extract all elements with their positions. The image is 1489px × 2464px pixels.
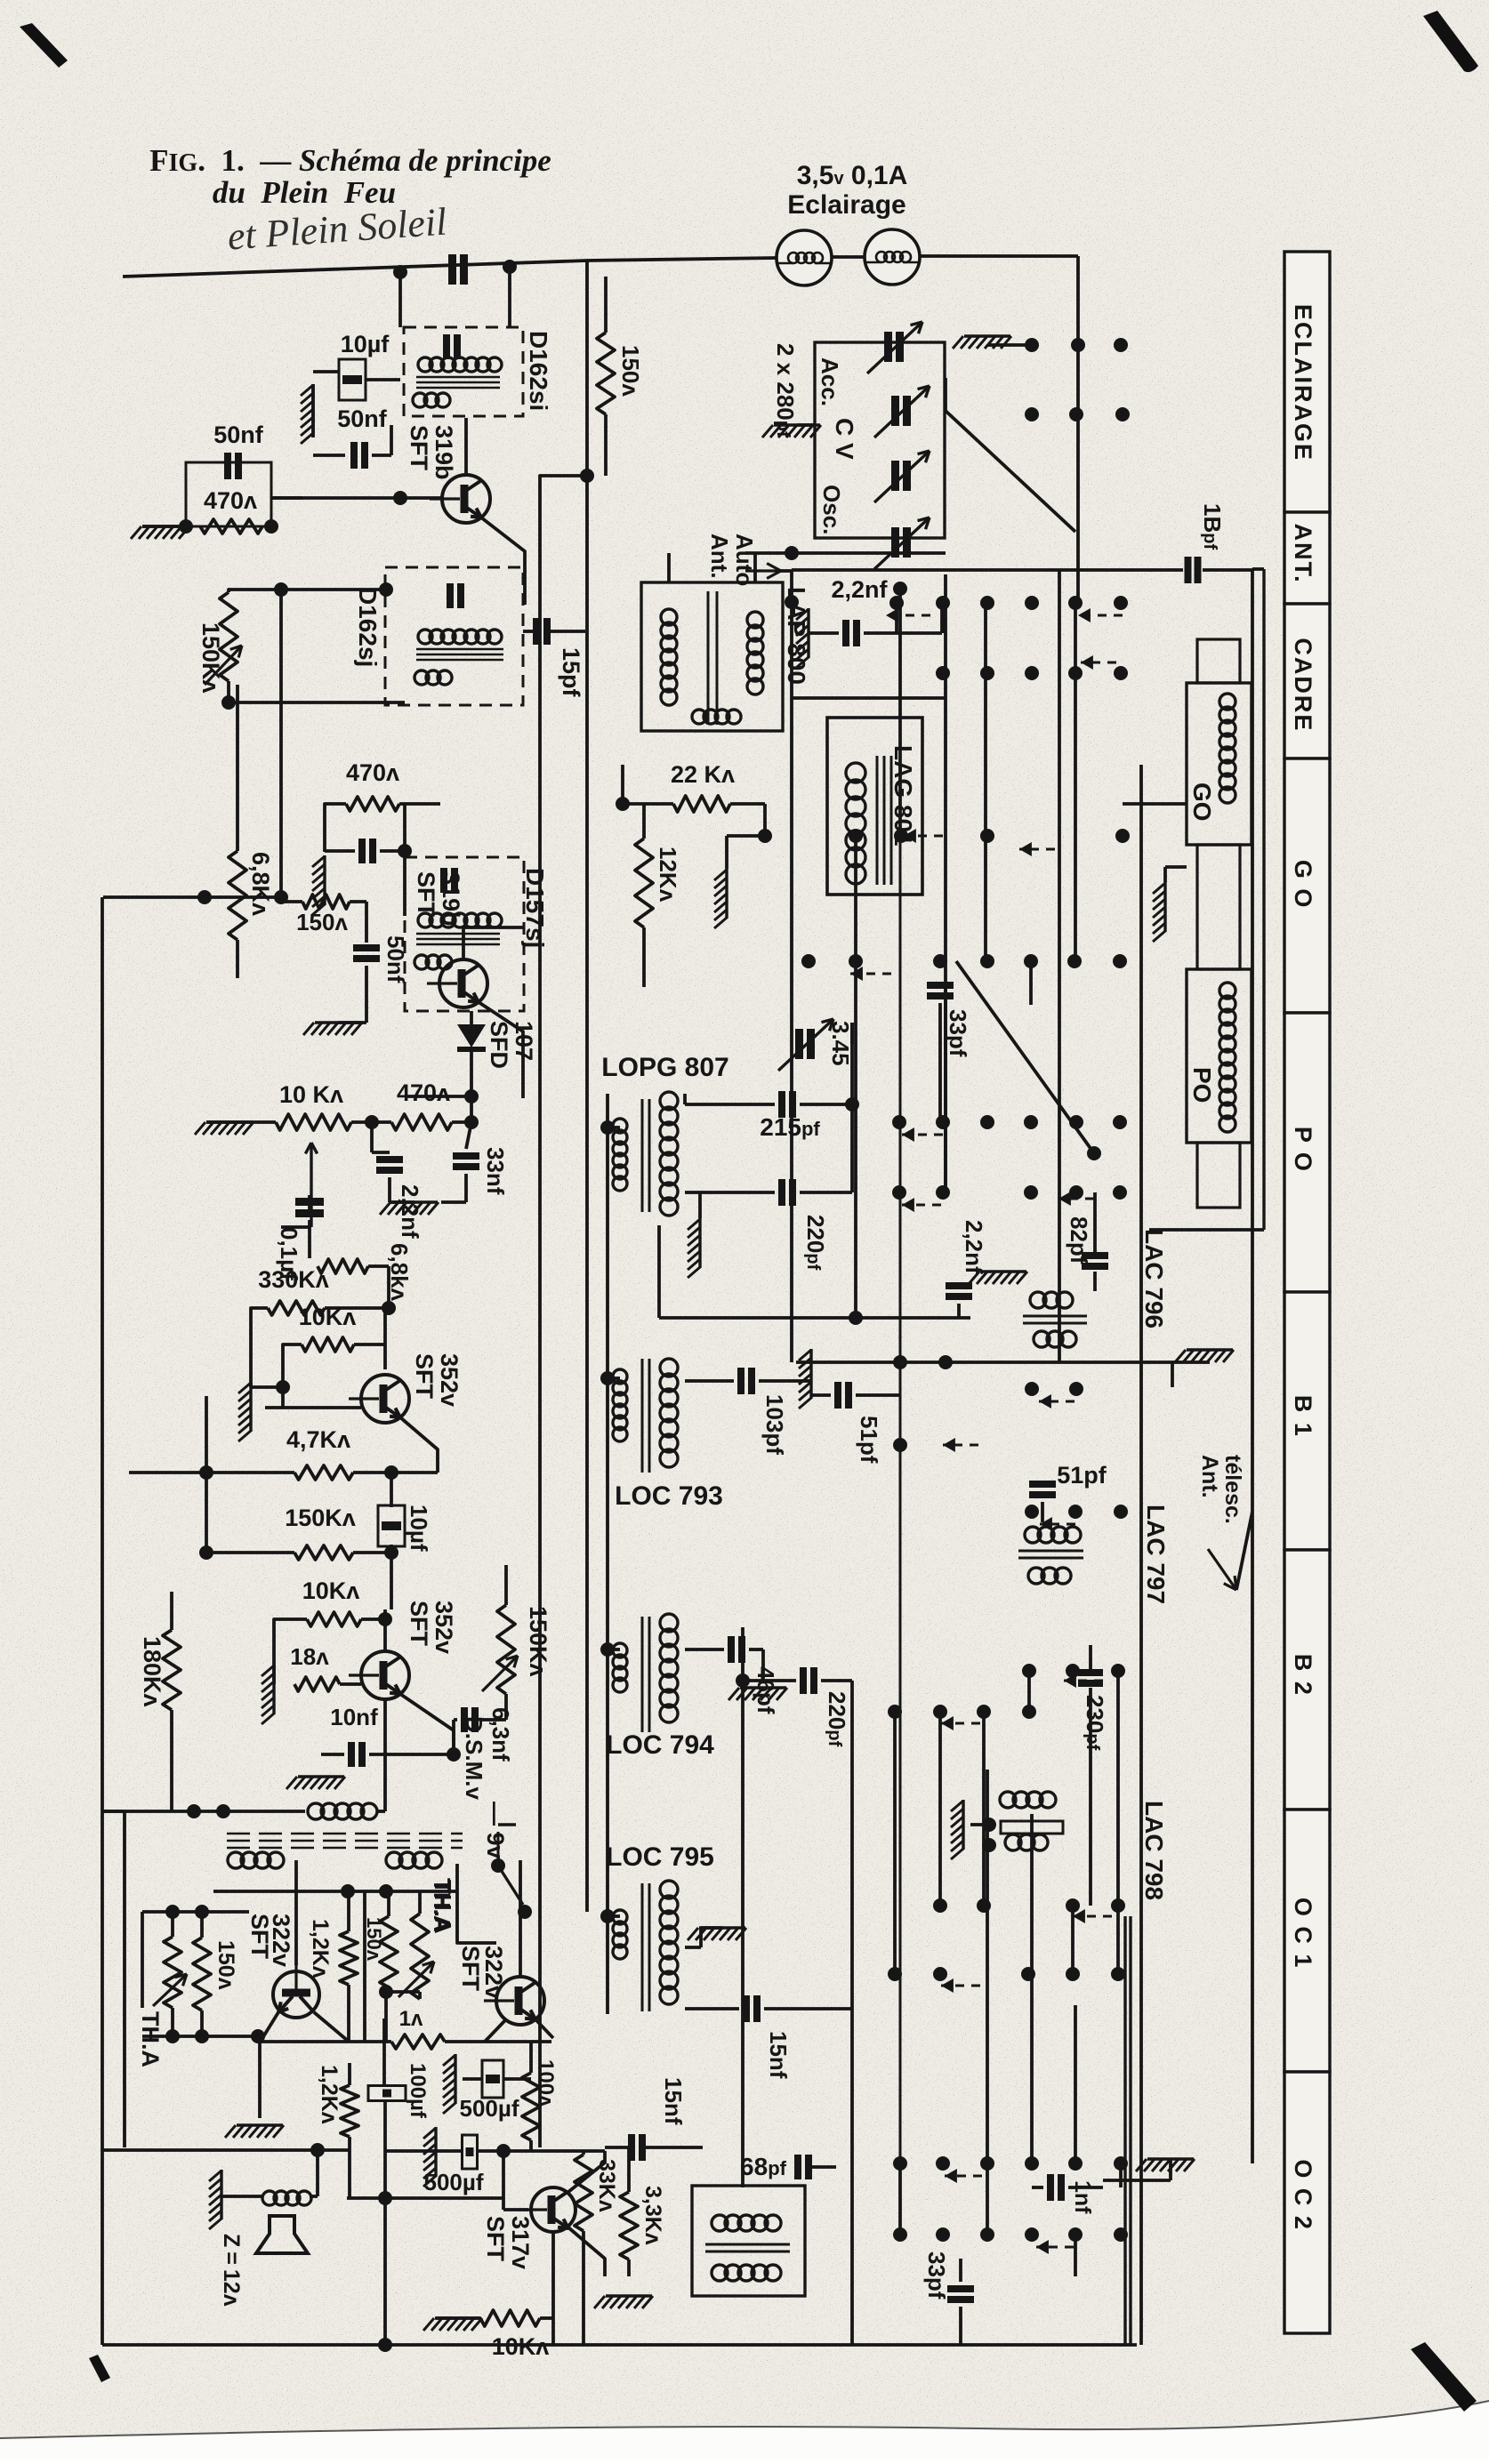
svg-text:10µf: 10µf [406,1505,432,1552]
svg-text:10µf: 10µf [341,331,390,357]
svg-text:D157sj: D157sj [521,868,549,948]
svg-text:O C 1: O C 1 [1290,1898,1316,1970]
svg-text:LOC 794: LOC 794 [606,1730,714,1760]
svg-text:470ʌ: 470ʌ [397,1080,450,1106]
svg-text:2,2nf: 2,2nf [831,576,888,603]
svg-text:LOPG 807: LOPG 807 [601,1053,728,1082]
svg-text:500µf: 500µf [459,2095,519,2122]
svg-text:P O: P O [1290,1127,1316,1173]
svg-text:O C 2: O C 2 [1290,2159,1316,2231]
svg-text:TH.A: TH.A [430,1880,456,1934]
svg-text:10Kʌ: 10Kʌ [302,1577,360,1604]
svg-text:82pf: 82pf [1066,1216,1092,1264]
svg-text:TH.A: TH.A [137,2011,164,2067]
svg-text:4,7Kʌ: 4,7Kʌ [286,1426,350,1453]
svg-text:Acc.: Acc. [817,357,843,406]
svg-text:B 2: B 2 [1290,1654,1316,1697]
svg-text:33nf: 33nf [482,1147,509,1195]
svg-text:322v: 322v [268,1914,294,1967]
svg-text:G O: G O [1290,860,1316,910]
svg-text:SFT: SFT [406,425,432,471]
svg-text:6,3nf: 6,3nf [487,1707,514,1762]
svg-text:— 9v: — 9v [482,1802,509,1859]
svg-text:500µf: 500µf [423,2169,483,2195]
svg-text:352v: 352v [436,1353,463,1407]
svg-text:50nf: 50nf [213,421,264,448]
svg-text:15nf: 15nf [765,2031,792,2079]
svg-text:46pf: 46pf [753,1666,779,1714]
svg-text:12Kʌ: 12Kʌ [655,847,681,903]
svg-text:10nf: 10nf [330,1704,378,1730]
svg-text:SFD: SFD [486,1021,512,1069]
svg-text:352v: 352v [431,1601,457,1654]
svg-text:D162si: D162si [525,331,552,411]
svg-text:FIG. 1. — Schéma de principe: FIG. 1. — Schéma de principe [149,143,551,178]
svg-text:150Kʌ: 150Kʌ [525,1606,551,1677]
svg-text:322v: 322v [480,1946,507,1999]
svg-text:15pf: 15pf [558,647,584,698]
svg-text:317v: 317v [507,2216,534,2269]
svg-text:330Kʌ: 330Kʌ [258,1266,329,1293]
svg-text:2,2nf: 2,2nf [397,1184,423,1239]
svg-text:LOC 793: LOC 793 [615,1481,723,1511]
svg-text:150ʌ: 150ʌ [363,1917,385,1962]
svg-text:LAC 798: LAC 798 [1140,1801,1168,1900]
svg-text:ECLAIRAGE: ECLAIRAGE [1290,304,1316,461]
svg-text:C V: C V [831,418,858,460]
svg-text:103pf: 103pf [761,1394,788,1455]
svg-text:6,8Kʌ: 6,8Kʌ [247,852,274,916]
svg-text:51pf: 51pf [856,1416,882,1464]
svg-text:SFT: SFT [482,2216,509,2262]
svg-text:10 Kʌ: 10 Kʌ [279,1081,343,1108]
svg-text:SFT: SFT [406,1601,432,1647]
svg-text:100µf: 100µf [406,2063,430,2119]
svg-text:D.S.M.v: D.S.M.v [461,1716,487,1800]
svg-text:1,2Kʌ: 1,2Kʌ [317,2065,342,2124]
svg-text:50nf: 50nf [337,405,388,432]
svg-text:ANT.: ANT. [1290,524,1316,584]
svg-text:Ant.: Ant. [706,534,733,579]
svg-text:SFT: SFT [457,1946,484,1992]
svg-text:107: 107 [511,1021,537,1061]
svg-text:319b: 319b [431,425,457,480]
svg-text:180Kʌ: 180Kʌ [139,1636,165,1707]
svg-text:GO: GO [1188,783,1216,822]
svg-text:B 1: B 1 [1290,1395,1316,1438]
svg-text:150Kʌ: 150Kʌ [285,1505,356,1531]
svg-text:470ʌ: 470ʌ [204,487,257,514]
svg-text:18ʌ: 18ʌ [290,1643,329,1670]
svg-text:2,2nf: 2,2nf [961,1220,987,1274]
svg-text:150Kʌ: 150Kʌ [197,622,224,694]
svg-text:15nf: 15nf [660,2077,687,2125]
svg-text:150ʌ: 150ʌ [296,909,348,935]
svg-text:Ant.: Ant. [1197,1455,1222,1498]
svg-text:Eclairage: Eclairage [787,190,905,220]
svg-text:33pf: 33pf [923,2251,950,2299]
svg-text:100ʌ: 100ʌ [534,2059,558,2107]
svg-text:33Kʌ: 33Kʌ [594,2159,619,2212]
svg-text:150ʌ: 150ʌ [617,345,644,397]
svg-text:33pf: 33pf [945,1009,971,1057]
svg-text:3,5v 0,1A: 3,5v 0,1A [797,161,908,190]
svg-text:51pf: 51pf [1057,1462,1107,1489]
svg-text:22 Kʌ: 22 Kʌ [671,761,735,788]
svg-text:3,3Kʌ: 3,3Kʌ [640,2186,665,2245]
svg-text:10Kʌ: 10Kʌ [492,2333,550,2360]
svg-text:470ʌ: 470ʌ [346,759,399,786]
svg-text:Z = 12ʌ: Z = 12ʌ [219,2234,244,2307]
svg-text:SFT: SFT [411,1353,438,1400]
svg-text:D162sj: D162sj [354,587,382,667]
svg-text:10Kʌ: 10Kʌ [299,1304,357,1330]
svg-text:1ʌ: 1ʌ [399,2007,423,2031]
svg-text:SFT: SFT [413,871,439,918]
svg-text:CADRE: CADRE [1290,638,1316,732]
svg-text:68pf: 68pf [740,2153,787,2180]
svg-text:1,2Kʌ: 1,2Kʌ [308,1919,333,1978]
svg-text:3.45: 3.45 [827,1021,854,1066]
svg-text:PO: PO [1188,1067,1216,1103]
svg-text:LAC 797: LAC 797 [1142,1505,1170,1604]
svg-text:télesc.: télesc. [1220,1455,1245,1524]
svg-text:LOC 795: LOC 795 [606,1842,714,1872]
svg-text:LAC 796: LAC 796 [1140,1229,1168,1328]
svg-text:Osc.: Osc. [818,485,845,534]
svg-text:1nf: 1nf [1070,2180,1095,2214]
svg-text:150ʌ: 150ʌ [213,1940,238,1990]
